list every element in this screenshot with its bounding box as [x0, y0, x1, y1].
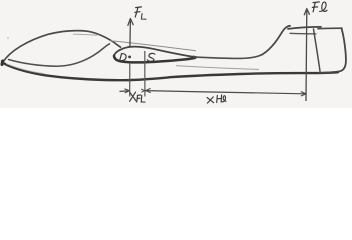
fuselage top outline (nose over canopy top, aft to wing root): [3, 31, 121, 62]
canopy lower edge (cockpit lens bottom): [9, 44, 110, 67]
tail boom top line (wing TE to fin): [194, 55, 263, 59]
fuselage belly line (thick dark, nose to tail): [3, 63, 339, 81]
label x_FL (handwritten X with FL subscript): [130, 92, 145, 102]
nose tip blob: [1, 61, 5, 65]
force arrow F_L at wing (arrowhead): [128, 19, 133, 26]
faint sketch line above belly (tail boom underside, light stroke): [176, 66, 259, 70]
label S (Schwerpunkt): [147, 53, 155, 61]
label F_L at wing (handwritten F): [135, 7, 146, 19]
label F_L at tail (handwritten F and script l): [312, 2, 327, 12]
vertical fin leading edge: [262, 26, 290, 55]
stray pencil dot: [7, 37, 9, 39]
wing airfoil lower surface (thick dark): [114, 56, 196, 63]
dimension line x_HL (CG to tail lift line): [146, 91, 305, 94]
dimension x_FL left arrow segment: [120, 90, 129, 93]
force arrow F_L at tail (shaft, long vertical through tail): [305, 10, 308, 101]
wing root fairing line (thin, behind canopy to trailing edge): [110, 41, 196, 51]
label D (Druckpunkt): [120, 54, 127, 61]
arrowhead x_HL right (pointing right): [301, 92, 306, 97]
faint echo line above belly near nose: [6, 64, 45, 74]
dimension x_FL right arrow (pointing left at CG line): [146, 88, 151, 92]
tailplane top line (rear part to rudder): [318, 27, 342, 30]
faint inner canopy sketch line: [73, 34, 97, 35]
rudder hinge line: [314, 29, 321, 71]
force arrow F_L at tail (arrowhead): [304, 9, 309, 15]
extension line at CG (through airfoil down to dimension): [144, 51, 146, 97]
force arrow F_L at wing (shaft above wing): [129, 20, 132, 48]
tailplane band lower line: [290, 32, 317, 35]
tailplane top line (front part): [288, 27, 321, 29]
small opposing arrowhead at CG line: [141, 89, 144, 92]
rudder trailing edge and bottom corner: [319, 28, 346, 73]
wing airfoil upper surface: [114, 47, 194, 57]
label x_HL (handwritten x, H, l): [207, 95, 226, 103]
pressure point dot D on wing: [128, 56, 131, 59]
extension line through wing at lift line (below wing to dimension): [129, 63, 131, 97]
